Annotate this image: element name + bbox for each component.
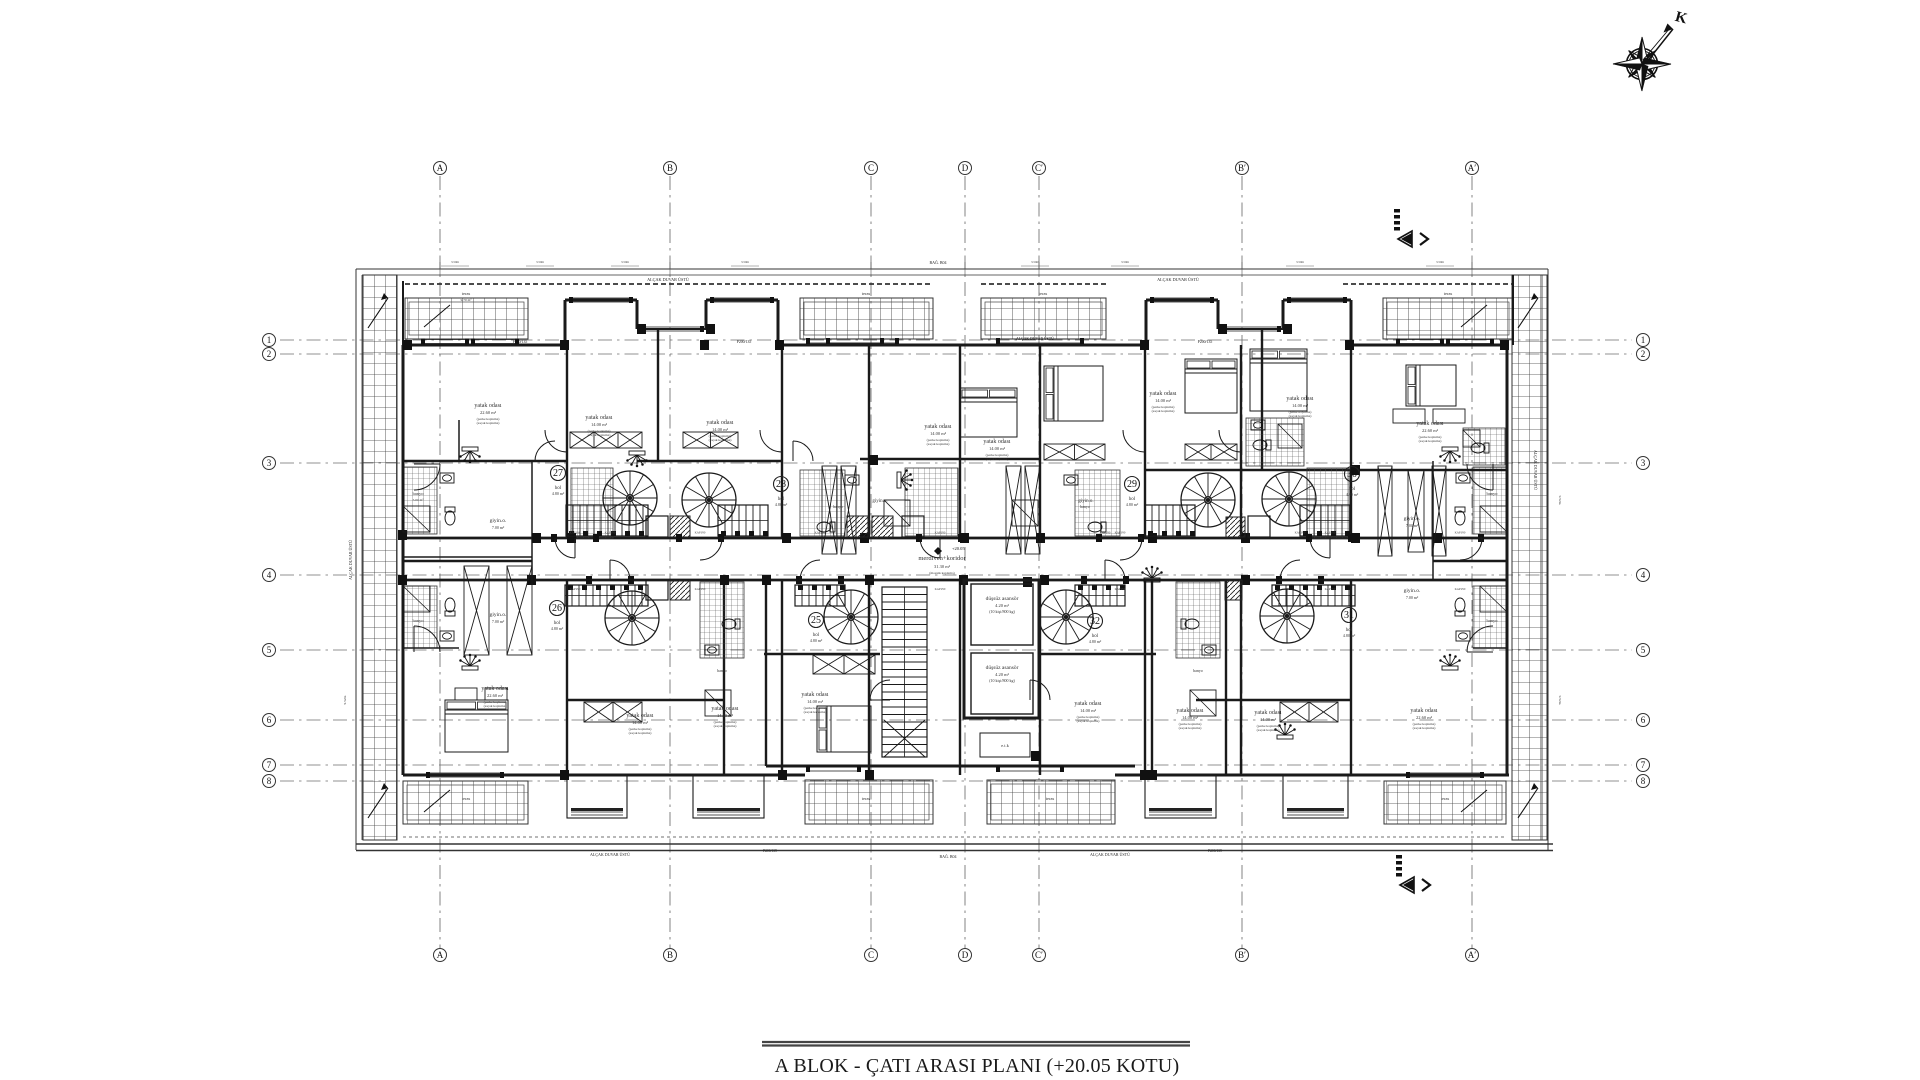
- svg-text:(mozaik kaplama): (mozaik kaplama): [929, 571, 955, 575]
- svg-text:yatak odası: yatak odası: [626, 713, 653, 719]
- svg-text:A BLOK - ÇATI ARASI PLANI (: A BLOK - ÇATI ARASI PLANI (+20.05 KOTU): [775, 1055, 1180, 1077]
- svg-text:giyin.o.: giyin.o.: [1404, 588, 1421, 594]
- svg-text:(saçak kaplama): (saçak kaplama): [927, 442, 951, 446]
- svg-text:yatak odası: yatak odası: [474, 403, 501, 409]
- svg-text:14.00 m²: 14.00 m²: [930, 431, 947, 436]
- svg-text:A′: A′: [1468, 163, 1476, 173]
- svg-text:(saçak kaplama): (saçak kaplama): [986, 457, 1010, 461]
- svg-text:2: 2: [1641, 349, 1646, 359]
- svg-text:yatak odası: yatak odası: [1074, 701, 1101, 707]
- svg-text:(saçak kaplama): (saçak kaplama): [629, 731, 653, 735]
- svg-text:4.80 m²: 4.80 m²: [551, 626, 564, 631]
- svg-text:yatak odası: yatak odası: [924, 424, 951, 430]
- svg-text:yatak odası: yatak odası: [1149, 391, 1176, 397]
- svg-text:3.50m: 3.50m: [1121, 260, 1130, 264]
- svg-text:7.00 m²: 7.00 m²: [1406, 523, 1419, 528]
- svg-text:düşsüz asansör: düşsüz asansör: [986, 596, 1019, 602]
- svg-text:düşsüz asansör: düşsüz asansör: [986, 665, 1019, 671]
- svg-text:3.50m: 3.50m: [1031, 260, 1040, 264]
- svg-text:KAPI/90: KAPI/90: [1100, 531, 1111, 535]
- svg-text:4.80 m²: 4.80 m²: [1089, 639, 1102, 644]
- svg-text:14.00 m²: 14.00 m²: [1155, 398, 1172, 403]
- svg-text:3: 3: [1641, 458, 1646, 468]
- svg-text:KAPI/90: KAPI/90: [1455, 587, 1466, 591]
- svg-text:14.00 m²: 14.00 m²: [712, 427, 729, 432]
- svg-text:B′: B′: [1238, 950, 1246, 960]
- svg-text:22.60 m²: 22.60 m²: [480, 410, 497, 415]
- svg-text:teras: teras: [862, 796, 871, 801]
- svg-text:ALÇAK DUVAR ÜSTÜ: ALÇAK DUVAR ÜSTÜ: [1533, 450, 1538, 490]
- svg-text:yatak odası: yatak odası: [1286, 396, 1313, 402]
- svg-text:P200/135: P200/135: [763, 849, 777, 853]
- svg-text:(saçak kaplama): (saçak kaplama): [484, 704, 508, 708]
- svg-text:14.00 m²: 14.00 m²: [989, 446, 1006, 451]
- svg-text:14.00 m²: 14.00 m²: [717, 713, 734, 718]
- svg-text:KAPI/90: KAPI/90: [1295, 531, 1306, 535]
- svg-text:KAPI/90: KAPI/90: [605, 531, 616, 535]
- svg-text:4.80 m²: 4.80 m²: [1346, 492, 1359, 497]
- svg-text:giyin.o.: giyin.o.: [490, 518, 507, 524]
- svg-text:banyo: banyo: [413, 491, 425, 496]
- svg-text:4.80 m²: 4.80 m²: [1343, 633, 1356, 638]
- svg-text:ALÇAK DUVAR ÜSTÜ: ALÇAK DUVAR ÜSTÜ: [1016, 336, 1054, 341]
- svg-text:yatak odası: yatak odası: [481, 686, 508, 692]
- svg-text:4.20 m²: 4.20 m²: [995, 603, 1010, 608]
- svg-text:(saçak kaplama): (saçak kaplama): [714, 724, 738, 728]
- svg-text:KAPI/90: KAPI/90: [695, 587, 706, 591]
- svg-text:yatak odası: yatak odası: [1254, 710, 1281, 716]
- svg-text:(saçak kaplama): (saçak kaplama): [477, 421, 501, 425]
- svg-text:22.60 m²: 22.60 m²: [487, 693, 504, 698]
- svg-text:7.00 m²: 7.00 m²: [492, 525, 505, 530]
- svg-text:22.60 m²: 22.60 m²: [1422, 428, 1439, 433]
- svg-text:27: 27: [553, 468, 563, 479]
- svg-text:B: B: [667, 163, 673, 173]
- svg-text:30: 30: [1347, 469, 1357, 480]
- svg-text:8: 8: [1641, 776, 1646, 786]
- svg-text:14.00 m²: 14.00 m²: [807, 699, 824, 704]
- svg-text:26: 26: [552, 603, 562, 614]
- svg-text:banyo: banyo: [413, 618, 425, 623]
- svg-text:(saçak kaplama): (saçak kaplama): [1289, 414, 1313, 418]
- svg-text:ALÇAK DUVAR ÜSTÜ: ALÇAK DUVAR ÜSTÜ: [590, 852, 630, 857]
- svg-text:P200/135: P200/135: [737, 340, 752, 344]
- svg-text:14.00 m²: 14.00 m²: [1182, 715, 1199, 720]
- svg-text:31: 31: [1344, 610, 1354, 621]
- svg-text:4.20 m²: 4.20 m²: [995, 672, 1010, 677]
- svg-text:C: C: [868, 163, 874, 173]
- svg-text:5: 5: [1641, 645, 1646, 655]
- svg-text:banyo: banyo: [1193, 668, 1203, 673]
- svg-text:BAĞ. B04: BAĞ. B04: [929, 260, 946, 265]
- svg-text:14.00 m²: 14.00 m²: [1292, 403, 1309, 408]
- svg-text:ALÇAK DUVAR ÜSTÜ: ALÇAK DUVAR ÜSTÜ: [1157, 277, 1199, 282]
- svg-text:14.00 m²: 14.00 m²: [632, 720, 649, 725]
- svg-text:yatak odası: yatak odası: [801, 692, 828, 698]
- svg-text:giyin.o.: giyin.o.: [872, 499, 887, 504]
- svg-text:yatak odası: yatak odası: [983, 439, 1010, 445]
- svg-text:7: 7: [1641, 760, 1646, 770]
- svg-text:teras: teras: [1046, 796, 1055, 801]
- svg-text:yatak odası: yatak odası: [1176, 708, 1203, 714]
- svg-text:yatak odası: yatak odası: [1410, 708, 1437, 714]
- svg-text:(saçak kaplama): (saçak kaplama): [709, 438, 733, 442]
- svg-text:KAPI/90: KAPI/90: [935, 531, 946, 535]
- svg-text:BAĞ. B04: BAĞ. B04: [939, 854, 956, 859]
- svg-text:25: 25: [811, 615, 821, 626]
- svg-text:4.80 m²: 4.80 m²: [775, 502, 788, 507]
- svg-text:KAPI/90: KAPI/90: [1115, 531, 1126, 535]
- svg-text:P200/135: P200/135: [1198, 340, 1213, 344]
- svg-text:A: A: [437, 163, 444, 173]
- svg-text:(saçak kaplama): (saçak kaplama): [1413, 726, 1437, 730]
- svg-text:1: 1: [267, 335, 272, 345]
- svg-text:7.00 m²: 7.00 m²: [492, 619, 505, 624]
- svg-text:KAPI/90: KAPI/90: [570, 587, 581, 591]
- svg-text:ALÇAK DUVAR ÜSTÜ: ALÇAK DUVAR ÜSTÜ: [1090, 852, 1130, 857]
- svg-text:4: 4: [267, 570, 272, 580]
- svg-text:9.70 m²: 9.70 m²: [461, 298, 472, 302]
- svg-text:14.00 m²: 14.00 m²: [591, 422, 608, 427]
- svg-text:(saçak kaplama): (saçak kaplama): [1419, 439, 1443, 443]
- svg-text:3: 3: [267, 458, 272, 468]
- svg-text:3.50m: 3.50m: [741, 260, 750, 264]
- svg-text:(saçak kaplama): (saçak kaplama): [804, 710, 828, 714]
- svg-text:teras: teras: [1441, 796, 1450, 801]
- svg-text:+20.05: +20.05: [952, 546, 965, 551]
- svg-text:4: 4: [1641, 570, 1646, 580]
- svg-text:P200/135: P200/135: [513, 340, 528, 344]
- svg-text:yatak odası: yatak odası: [706, 420, 733, 426]
- svg-text:3.50m: 3.50m: [536, 260, 545, 264]
- svg-text:5: 5: [267, 645, 272, 655]
- svg-text:banyo: banyo: [1080, 504, 1090, 509]
- svg-text:22.60 m²: 22.60 m²: [1416, 715, 1433, 720]
- svg-text:4.80 m²: 4.80 m²: [810, 638, 823, 643]
- svg-text:giyin.o.: giyin.o.: [1404, 516, 1421, 522]
- svg-text:A: A: [437, 950, 444, 960]
- svg-text:9.52m: 9.52m: [343, 695, 347, 704]
- svg-text:merdiven+koridor: merdiven+koridor: [918, 555, 966, 562]
- svg-text:C′: C′: [1035, 950, 1043, 960]
- svg-text:KAPI/90: KAPI/90: [1325, 531, 1336, 535]
- svg-text:banyo: banyo: [1487, 491, 1499, 496]
- svg-text:giyin.o.: giyin.o.: [490, 612, 507, 618]
- svg-text:C: C: [868, 950, 874, 960]
- svg-text:yatak odası: yatak odası: [585, 415, 612, 421]
- svg-text:KAPI/90: KAPI/90: [695, 531, 706, 535]
- svg-text:KAPI/90: KAPI/90: [1325, 587, 1336, 591]
- svg-text:3.50m: 3.50m: [1296, 260, 1305, 264]
- svg-text:6: 6: [1641, 715, 1646, 725]
- svg-text:31.30 m²: 31.30 m²: [934, 564, 951, 569]
- svg-text:P200/135: P200/135: [1208, 849, 1222, 853]
- svg-text:teras: teras: [1444, 291, 1453, 296]
- svg-text:(saçak kaplama): (saçak kaplama): [1179, 726, 1203, 730]
- svg-text:(10 kişi/800 kg): (10 kişi/800 kg): [989, 678, 1015, 683]
- svg-text:(saçak kaplama): (saçak kaplama): [1152, 409, 1176, 413]
- svg-text:6: 6: [267, 715, 272, 725]
- svg-text:9.52m: 9.52m: [1558, 696, 1562, 705]
- svg-text:5.00 m²: 5.00 m²: [413, 498, 424, 502]
- svg-text:4.80 m²: 4.80 m²: [1126, 502, 1139, 507]
- svg-text:(saçak kaplama): (saçak kaplama): [588, 433, 612, 437]
- svg-text:9.52m: 9.52m: [1558, 496, 1562, 505]
- svg-text:yatak odası: yatak odası: [1416, 421, 1443, 427]
- svg-text:banyo: banyo: [717, 668, 727, 673]
- svg-text:28: 28: [776, 479, 786, 490]
- svg-text:(saçak kaplama): (saçak kaplama): [1257, 728, 1281, 732]
- svg-text:teras: teras: [462, 796, 471, 801]
- svg-text:3.50m: 3.50m: [451, 260, 460, 264]
- svg-text:14.00 m²: 14.00 m²: [1260, 717, 1277, 722]
- svg-text:7: 7: [267, 760, 272, 770]
- svg-text:KAPI/90: KAPI/90: [935, 587, 946, 591]
- svg-text:32: 32: [1090, 616, 1100, 627]
- svg-text:29: 29: [1127, 479, 1137, 490]
- svg-text:2: 2: [267, 349, 272, 359]
- svg-text:teras: teras: [462, 291, 471, 296]
- svg-text:KAPI/90: KAPI/90: [1115, 587, 1126, 591]
- svg-text:e.t.k: e.t.k: [1001, 743, 1009, 748]
- svg-text:KAPI/90: KAPI/90: [1455, 531, 1466, 535]
- svg-text:KAPI/90: KAPI/90: [570, 531, 581, 535]
- svg-text:8: 8: [267, 776, 272, 786]
- svg-text:4.80 m²: 4.80 m²: [552, 491, 565, 496]
- svg-text:ALÇAK DUVAR ÜSTÜ: ALÇAK DUVAR ÜSTÜ: [348, 540, 353, 580]
- svg-text:teras: teras: [862, 291, 871, 296]
- svg-text:7.00 m²: 7.00 m²: [1406, 595, 1419, 600]
- svg-text:(10 kişi/800 kg): (10 kişi/800 kg): [989, 609, 1015, 614]
- svg-text:banyo: banyo: [1487, 618, 1499, 623]
- svg-text:3.50m: 3.50m: [1436, 260, 1445, 264]
- svg-text:ALÇAK DUVAR ÜSTÜ: ALÇAK DUVAR ÜSTÜ: [647, 277, 689, 282]
- svg-text:yatak odası: yatak odası: [711, 706, 738, 712]
- svg-text:1: 1: [1641, 335, 1646, 345]
- svg-text:14.00 m²: 14.00 m²: [1080, 708, 1097, 713]
- svg-text:A′: A′: [1468, 950, 1476, 960]
- svg-text:(saçak kaplama): (saçak kaplama): [1077, 719, 1101, 723]
- svg-text:KAPI/90: KAPI/90: [815, 531, 826, 535]
- svg-text:3.50m: 3.50m: [621, 260, 630, 264]
- svg-text:B: B: [667, 950, 673, 960]
- svg-text:B′: B′: [1238, 163, 1246, 173]
- svg-text:teras: teras: [1039, 291, 1048, 296]
- svg-text:C′: C′: [1035, 163, 1043, 173]
- svg-text:D: D: [962, 950, 969, 960]
- svg-text:D: D: [962, 163, 969, 173]
- svg-text:banyo: banyo: [833, 504, 843, 509]
